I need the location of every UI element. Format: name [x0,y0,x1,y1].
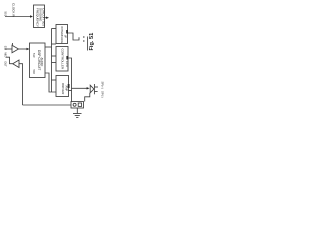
figure label Fig. 51 [89,33,95,51]
wire clock input arrow [5,16,32,18]
node HP label [3,61,7,67]
figure label underline [87,37,89,51]
svg-text:SP(-): SP(-) [100,91,104,98]
wire box A to port [68,33,79,40]
wire mic input [5,48,12,50]
wire speaker terminal lower [95,91,98,93]
wire codec to bus [45,46,52,48]
wire speaker return [85,93,90,102]
node CLK ref numeral [4,12,8,17]
wire amp2 output to label [6,57,13,64]
svg-text:510: 510 [32,53,36,58]
svg-text:CPU: CPU [65,61,69,67]
svg-text:MIC: MIC [3,52,7,57]
node CLK IN label [12,3,16,17]
driver text [61,83,69,95]
svg-text:INTERFACE: INTERFACE [60,27,64,44]
node amp1 tick [12,43,14,45]
wire codec lower output [45,73,56,92]
svg-text:CIRCUIT 503: CIRCUIT 503 [42,8,46,26]
svg-text:501: 501 [4,12,8,17]
connector terminal right [78,103,81,106]
connector terminal left [73,103,76,106]
wire amp to codec arrow [19,48,29,50]
wire bus vertical [51,29,53,93]
interface box U3 [56,25,68,44]
codec text [32,50,44,74]
driver box U5 [56,76,69,97]
amplifier A1 [12,45,19,53]
wire bus stub to box B [52,55,57,57]
speaker SP1 [90,85,94,93]
amplifier A2 [13,60,19,68]
oscillator box U1 [34,5,45,28]
controller box U4 [56,47,68,72]
pin box A output [66,30,68,34]
node port marks [83,36,84,37]
controller text [60,49,68,70]
wire speaker feed arrow [72,87,88,89]
svg-text:DRIVER: DRIVER [61,83,65,95]
svg-text:I/F: I/F [64,35,68,38]
codec box U2 [30,43,46,78]
wire bus stub to box C [52,79,57,81]
ground [76,108,78,114]
svg-text:AUDIO: AUDIO [40,58,44,68]
node HP ref numeral [3,52,7,57]
pin box C output [68,84,70,88]
interface text [60,27,68,44]
wire oscillator output arrow [45,17,48,19]
wire amp2 input from rail [19,64,23,105]
wire bus stub to box A top [52,28,57,30]
svg-text:512: 512 [3,46,7,51]
oscillator text [36,8,46,27]
wire speaker terminal upper [95,86,98,88]
wire bus stub to box B lower [52,62,57,64]
node speaker label lower [100,91,104,98]
wire bottom rail [23,104,72,106]
svg-text:CONTROLLER: CONTROLLER [60,49,64,70]
connector J1 [71,102,84,109]
wire bus stub to box A bottom [52,43,57,45]
svg-text:Fig. 51: Fig. 51 [89,33,95,51]
pin box B output [66,56,68,60]
node MIC ref numeral [3,46,7,51]
wire box B output down [68,58,71,102]
wire box C stub [69,90,72,92]
node speaker label upper [100,82,104,89]
svg-text:502: 502 [32,70,36,75]
svg-text:SP(+): SP(+) [100,82,104,89]
svg-text:CLOCK IN: CLOCK IN [12,3,16,17]
